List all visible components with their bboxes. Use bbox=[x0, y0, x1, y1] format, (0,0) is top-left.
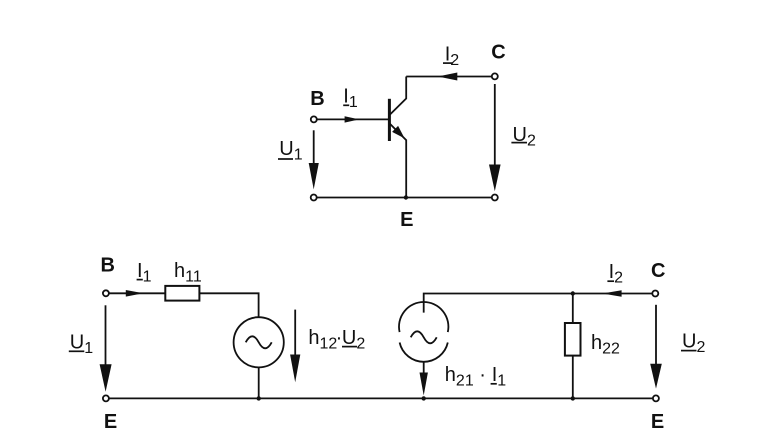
voltage arrow h12*U2 bbox=[294, 310, 296, 356]
current arrow I2 (bottom) bbox=[602, 290, 621, 297]
junction below source U bbox=[257, 396, 261, 400]
wire h22 upper bbox=[572, 294, 574, 324]
svg-text:B: B bbox=[310, 88, 324, 110]
current arrow I1 (bottom) bbox=[126, 290, 144, 297]
source U (h12*U2) circle bbox=[234, 317, 284, 367]
wire source I up and right to C bbox=[424, 294, 653, 313]
terminal C (bottom) bbox=[652, 291, 658, 297]
junction E (top) bbox=[404, 195, 408, 199]
svg-text:E: E bbox=[400, 209, 413, 231]
transistor Q1 base bar bbox=[388, 99, 391, 141]
junction bottom (h22) bbox=[571, 396, 575, 400]
wire bottom rail bbox=[109, 397, 652, 399]
junction below source I bbox=[422, 396, 426, 400]
wire emitter down bbox=[405, 141, 407, 198]
junction top (h22) bbox=[571, 291, 575, 295]
terminal B (bottom) bbox=[103, 290, 109, 296]
svg-text:B: B bbox=[101, 254, 115, 276]
voltage arrow U2 (top) bbox=[494, 84, 496, 166]
terminal bottom-left (top) bbox=[311, 195, 317, 201]
svg-text:C: C bbox=[651, 260, 665, 282]
wire B to resistor h11 bbox=[109, 292, 165, 294]
voltage arrow U2 (bottom) bbox=[655, 305, 657, 365]
transistor Q1 collector lead bbox=[390, 77, 406, 115]
terminal bottom-right (top) bbox=[492, 195, 498, 201]
source I sine bbox=[411, 331, 437, 343]
transistor Q1 emitter lead bbox=[390, 124, 406, 141]
current arrow below source I bbox=[423, 362, 425, 374]
svg-text:E: E bbox=[104, 411, 117, 433]
source U sine bbox=[246, 336, 272, 348]
wire source down bbox=[258, 367, 260, 398]
svg-text:E: E bbox=[651, 411, 664, 433]
terminal B (top) bbox=[311, 116, 317, 122]
wire resistor to corner bbox=[199, 293, 258, 317]
wire h22 lower bbox=[572, 356, 574, 399]
current arrow I1 (top) bbox=[345, 116, 360, 122]
wire collector to C bbox=[406, 76, 492, 78]
wire base bbox=[317, 118, 388, 120]
voltage arrow U1 (top) bbox=[313, 130, 315, 164]
terminal bottom-right (bottom) bbox=[653, 395, 659, 401]
resistor h22 bbox=[565, 323, 581, 356]
terminal C (top) bbox=[492, 73, 498, 79]
voltage arrow U1 (bottom) bbox=[105, 305, 107, 366]
terminal bottom-left (bottom) bbox=[103, 395, 109, 401]
wire bottom (top circuit) bbox=[317, 197, 492, 199]
resistor h11 bbox=[165, 286, 199, 301]
source I (h21*I1) circle with gaps bbox=[399, 302, 448, 332]
transistor Q1 emitter arrow bbox=[392, 126, 405, 138]
svg-text:C: C bbox=[491, 41, 505, 63]
current arrow I2 (top) bbox=[438, 73, 458, 81]
